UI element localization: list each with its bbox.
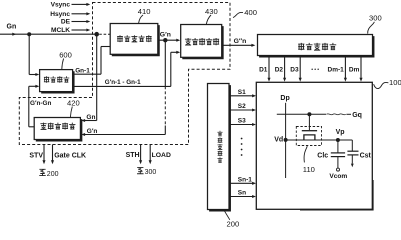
- leader 410: [139, 15, 143, 23]
- arrow Gate CLK: [51, 160, 54, 164]
- svg-text:G″n: G″n: [234, 38, 247, 45]
- wire G'n feedback down (solid): [164, 40, 166, 86]
- arrow Sn: [252, 195, 256, 198]
- svg-text:600: 600: [59, 51, 72, 60]
- svg-text:420: 420: [67, 98, 80, 107]
- svg-text:410: 410: [138, 7, 151, 16]
- svg-text:Cst: Cst: [360, 152, 372, 159]
- wire Vd to Vp: [286, 139, 353, 141]
- svg-text:300: 300: [145, 169, 157, 176]
- arrow Sn-1: [252, 182, 256, 185]
- wire G'n feedback down (solid 2): [164, 126, 166, 135]
- wire Gn into 410 (dashed): [99, 33, 110, 35]
- svg-text:Dm: Dm: [349, 66, 360, 73]
- svg-text:MCLK: MCLK: [51, 27, 70, 34]
- arrow into 430: [176, 39, 180, 42]
- text 430: gray-corrector (CJK): [185, 38, 191, 45]
- gate line break squiggle: [327, 114, 346, 115]
- arrow Dm-1: [344, 78, 347, 82]
- node Vp: [336, 138, 340, 142]
- node Gn branch to 600: [27, 32, 31, 36]
- block 300 data driver: [258, 35, 373, 56]
- arrow LOAD: [149, 160, 152, 164]
- svg-text:100: 100: [389, 78, 401, 87]
- svg-text:G′n: G′n: [160, 31, 171, 38]
- svg-text:DE: DE: [61, 19, 71, 26]
- svg-text:Sn-1: Sn-1: [238, 176, 252, 183]
- svg-text:Dp: Dp: [280, 95, 289, 102]
- text 300: data-driver (CJK): [298, 43, 304, 50]
- capacitor Clc: [337, 140, 339, 153]
- label: to 300: [137, 168, 144, 174]
- svg-text:110: 110: [303, 165, 315, 174]
- wire S1: [230, 95, 253, 97]
- leader 110: [304, 146, 307, 162]
- svg-text:Clc: Clc: [317, 152, 328, 159]
- wire Sn: [230, 196, 253, 198]
- svg-text:Vcom: Vcom: [329, 173, 347, 180]
- block 600 frame memory: [40, 70, 73, 92]
- wire Gn-1 from 600: [74, 73, 102, 75]
- arrow D1: [267, 78, 270, 82]
- svg-text:430: 430: [205, 7, 218, 16]
- arrow MCLK: [86, 28, 90, 31]
- svg-text:S2: S2: [238, 103, 246, 110]
- wire LOAD down: [149, 145, 151, 161]
- TFT gate bar: [302, 130, 317, 132]
- text 410: data-compensator (CJK): [117, 35, 123, 42]
- arrow STV: [42, 160, 45, 164]
- arrow into 430 (lower): [176, 51, 180, 54]
- leader 600: [62, 59, 64, 70]
- wire into 430 second input: [171, 51, 177, 53]
- arrow Dm: [359, 78, 362, 82]
- label: to 200: [39, 169, 46, 175]
- arrow DE: [86, 20, 90, 23]
- wire G'n feedback (dashed part): [164, 86, 166, 125]
- svg-text:D2: D2: [275, 66, 284, 73]
- wire Gn into 420: [85, 120, 97, 122]
- wire Gn-1 vertical: [100, 47, 102, 75]
- svg-text:D1: D1: [259, 66, 268, 73]
- block 430 gray-scale corrector: [181, 25, 222, 58]
- wire MCLK: [72, 29, 88, 31]
- svg-text:400: 400: [244, 8, 257, 17]
- block 420 difference calculator: [34, 118, 80, 140]
- wire STH down: [140, 145, 142, 161]
- block 410 data compensator: [110, 24, 158, 55]
- wire Sn-1: [230, 182, 253, 184]
- svg-text:D3: D3: [290, 66, 299, 73]
- svg-text:Vd: Vd: [274, 136, 283, 143]
- capacitor Cst: [351, 140, 353, 151]
- arrow into 600 (Gn): [35, 73, 39, 76]
- wire D3: [299, 57, 301, 79]
- svg-text:Gn: Gn: [7, 24, 17, 31]
- wire G-doubleprime-n: [223, 44, 252, 46]
- leader 100: [374, 82, 389, 88]
- vertical ellipsis between S3 and Sn-1: [241, 138, 243, 140]
- wire D2: [284, 57, 286, 79]
- text 600: frame-memory (CJK): [44, 76, 49, 82]
- dashed box 400 (timing controller boundary): [19, 3, 230, 145]
- node G'n junction: [163, 38, 167, 42]
- wire DE: [72, 21, 88, 23]
- leader 430: [206, 15, 211, 24]
- wire gate line Gq: [277, 113, 326, 115]
- arrow into 600 (G'n-Gn): [35, 85, 39, 88]
- wire TFT gate stub: [308, 114, 310, 130]
- svg-text:•••: •••: [311, 67, 320, 73]
- svg-text:Hsync: Hsync: [50, 11, 70, 18]
- wire G'n 410 to 430: [159, 39, 177, 41]
- svg-text:Gate CLK: Gate CLK: [54, 153, 86, 160]
- wire Gate CLK down: [52, 145, 54, 161]
- svg-text:S1: S1: [238, 89, 246, 96]
- arrow into 420 (G'n): [81, 133, 85, 136]
- node Gn branch to 420: [94, 32, 99, 37]
- wire into 600 input G'n-Gn: [29, 85, 36, 87]
- svg-text:G′n-1 - Gn-1: G′n-1 - Gn-1: [105, 79, 141, 86]
- TFT channel: [304, 135, 315, 140]
- wire Dm-1: [344, 57, 346, 79]
- text 420: difference-calculator (CJK): [40, 123, 46, 130]
- text 200: gate-driver (CJK, vertical): [217, 131, 222, 136]
- svg-text:200: 200: [227, 220, 240, 228]
- wire 420 output left: [29, 126, 34, 128]
- wire D1: [268, 57, 270, 79]
- wire Gn-1 into 410: [101, 46, 110, 48]
- svg-text:STH: STH: [126, 152, 140, 159]
- wire S2: [230, 109, 253, 111]
- svg-text:G′n: G′n: [87, 128, 98, 135]
- svg-text:Vsync: Vsync: [51, 1, 71, 8]
- arrow Cst to next gate line: [351, 164, 354, 168]
- arrow into 300: [251, 44, 255, 47]
- arrow STH: [139, 160, 142, 164]
- wire into 600 input Gn: [29, 74, 36, 76]
- svg-text:S3: S3: [238, 118, 246, 125]
- block 100 LCD panel: [256, 82, 372, 209]
- svg-text:STV: STV: [29, 153, 43, 160]
- wire G'n-Gn up from 420: [28, 86, 30, 127]
- node Vd: [284, 138, 288, 142]
- wire STV down: [43, 145, 45, 161]
- wire Gn down to 600: [28, 34, 30, 74]
- block 200 gate driver: [208, 84, 230, 210]
- wire Vsync: [72, 3, 88, 5]
- wire G'n-1 - Gn-1 from 600: [74, 85, 171, 87]
- svg-text:Gn: Gn: [86, 114, 95, 121]
- leader 300: [368, 22, 375, 34]
- svg-text:G′n-Gn: G′n-Gn: [30, 100, 52, 107]
- arrow S2: [252, 108, 256, 111]
- node TFT gate on Gq: [307, 112, 311, 116]
- wire Hsync: [72, 13, 88, 15]
- wire Dm: [360, 57, 362, 79]
- svg-text:200: 200: [47, 171, 59, 178]
- arrow D2: [283, 78, 286, 82]
- svg-text:Gn-1: Gn-1: [75, 67, 90, 74]
- svg-text:300: 300: [369, 14, 382, 23]
- svg-text:Vp: Vp: [336, 129, 345, 136]
- arrow into 420 (Gn): [81, 119, 85, 122]
- wire G'n into 420: [85, 134, 166, 136]
- leader 420: [70, 107, 72, 118]
- arrow Vsync: [86, 3, 90, 6]
- svg-text:LOAD: LOAD: [152, 152, 171, 159]
- svg-text:Dm-1: Dm-1: [328, 66, 345, 73]
- arrow S1: [252, 94, 256, 97]
- arrow on Gn wire: [12, 33, 16, 36]
- svg-text:Sn: Sn: [238, 190, 246, 197]
- wire data line Dp: [285, 103, 287, 178]
- arrow S3: [252, 123, 256, 126]
- arrow D3: [299, 78, 302, 82]
- wire up to 430 second input: [170, 52, 172, 86]
- arrow Hsync: [86, 12, 90, 15]
- svg-text:Gq: Gq: [352, 112, 362, 119]
- wire Gn vertical to 420: [96, 34, 98, 120]
- wire gate line to Gq label: [346, 113, 351, 115]
- wire S3: [230, 124, 253, 126]
- leader 200: [224, 210, 230, 220]
- wire Gn: [0, 33, 97, 35]
- leader 400: [233, 12, 243, 17]
